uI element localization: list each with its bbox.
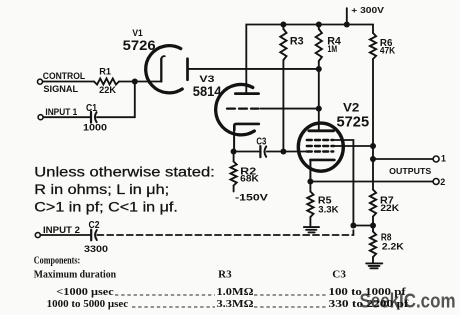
svg-text:5725: 5725 [337, 113, 370, 130]
svg-text:3300: 3300 [84, 244, 108, 255]
svg-text:22K: 22K [380, 203, 399, 213]
svg-text:R3: R3 [290, 36, 304, 48]
svg-text:3.3MΩ: 3.3MΩ [217, 299, 254, 310]
svg-text:<1000 μsec: <1000 μsec [56, 287, 114, 298]
svg-text:Maximum duration: Maximum duration [34, 270, 116, 281]
svg-text:R in ohms; L in μh;: R in ohms; L in μh; [34, 182, 169, 197]
svg-text:R1: R1 [99, 66, 111, 77]
svg-text:1M: 1M [328, 44, 338, 54]
svg-text:22K: 22K [99, 85, 116, 95]
svg-text:2: 2 [440, 177, 445, 187]
svg-text:Components:: Components: [34, 256, 80, 267]
svg-text:2.2K: 2.2K [382, 241, 405, 251]
svg-text:5814: 5814 [193, 84, 222, 99]
svg-text:C3: C3 [332, 269, 346, 280]
svg-text:R3: R3 [218, 269, 232, 280]
svg-text:100 to 1000 pf: 100 to 1000 pf [329, 287, 407, 298]
svg-text:INPUT 1: INPUT 1 [45, 107, 77, 117]
svg-text:1: 1 [441, 154, 446, 164]
svg-text:SIGNAL: SIGNAL [43, 84, 78, 94]
svg-text:47K: 47K [380, 46, 396, 56]
svg-text:68K: 68K [240, 174, 259, 184]
svg-text:1.0MΩ: 1.0MΩ [217, 287, 254, 298]
svg-text:C2: C2 [89, 220, 100, 231]
svg-text:C3: C3 [256, 136, 266, 147]
svg-text:OUTPUTS: OUTPUTS [389, 167, 432, 176]
svg-text:1000 to 5000 μsec: 1000 to 5000 μsec [47, 299, 129, 310]
svg-text:330 to 2200 pf: 330 to 2200 pf [329, 299, 410, 310]
svg-text:3.3K: 3.3K [318, 204, 339, 214]
svg-text:5726: 5726 [123, 37, 156, 53]
svg-text:-150V: -150V [235, 192, 269, 203]
svg-text:INPUT 2: INPUT 2 [43, 225, 80, 235]
svg-text:CONTROL: CONTROL [43, 71, 86, 81]
svg-text:C>1 in pf; C<1 in μf.: C>1 in pf; C<1 in μf. [34, 200, 178, 215]
svg-text:1000: 1000 [83, 123, 107, 134]
svg-text:Unless otherwise stated:: Unless otherwise stated: [34, 165, 215, 180]
svg-text:+ 300V: + 300V [351, 5, 384, 15]
svg-text:C1: C1 [86, 103, 97, 114]
